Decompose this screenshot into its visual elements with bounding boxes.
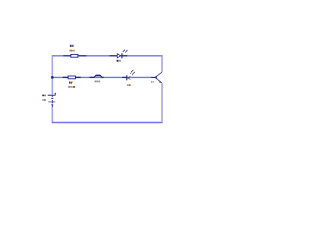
transistor Q1 (151, 72, 162, 83)
wire middle branch (52, 76, 151, 78)
resistor R1 (63, 54, 86, 57)
wire top rail (52, 55, 163, 57)
label F1 (95, 81, 101, 83)
wire left rail (51, 56, 53, 94)
label R2 name (69, 82, 73, 84)
fuse F1 (bridge hump) (90, 75, 104, 77)
resistor R2 (63, 76, 81, 79)
wire right rail upper (161, 56, 163, 72)
label D1 (117, 60, 121, 62)
plus mark (55, 93, 57, 95)
label Q1 (151, 81, 154, 83)
wire left rail lower (51, 107, 53, 123)
LED D1 (110, 49, 128, 58)
photodiode D2 (122, 70, 135, 80)
label B1 value (42, 99, 46, 101)
node junction middle-left (51, 76, 54, 79)
label D2 (127, 84, 131, 86)
label B1 name (42, 95, 46, 97)
wire bottom rail (52, 122, 163, 124)
label R2 value (68, 86, 75, 88)
wire right rail lower (161, 83, 163, 122)
label R1 value (70, 50, 75, 52)
battery B1 (48, 93, 56, 107)
label R1 name (70, 45, 74, 47)
